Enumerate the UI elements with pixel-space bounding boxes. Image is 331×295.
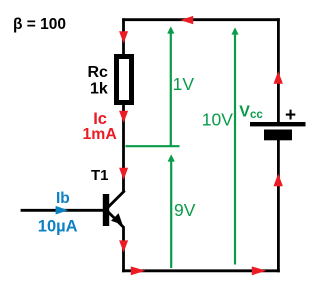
wire collector vertical (resistor to transistor)	[122, 104, 125, 192]
transistor emitter lead	[108, 212, 124, 228]
svg-text:1k: 1k	[90, 80, 108, 97]
voltage arrow 1V head	[167, 26, 174, 33]
svg-text:T1: T1	[91, 167, 109, 184]
current arrow bottom right (right-pointing)	[252, 266, 267, 275]
battery Vcc short plate	[264, 130, 292, 141]
svg-text:10µA: 10µA	[38, 217, 78, 235]
wire bottom horizontal	[122, 269, 280, 272]
wire top horizontal	[122, 18, 280, 21]
svg-text:1mA: 1mA	[83, 126, 117, 143]
wire base horizontal	[21, 209, 103, 212]
node tick collector voltage (green)	[126, 145, 180, 147]
voltage arrow 1V line	[170, 32, 172, 146]
current arrow bottom left (right-pointing)	[131, 266, 146, 275]
transistor collector lead	[108, 191, 125, 208]
wire emitter vertical	[122, 227, 125, 273]
battery Vcc long plate	[250, 122, 306, 126]
current arrow top wire (left-pointing)	[180, 16, 193, 24]
svg-text:Rc: Rc	[88, 64, 109, 81]
transistor emitter arrowhead	[111, 213, 123, 225]
voltage arrow 9V line	[170, 160, 172, 268]
svg-text:1V: 1V	[173, 74, 195, 94]
svg-text:Ib: Ib	[56, 190, 70, 207]
transistor Q1 base bar	[103, 194, 109, 226]
svg-text:β = 100: β = 100	[13, 16, 66, 33]
voltage arrow 10V head	[231, 27, 238, 34]
wire left vertical (top corner to resistor)	[122, 18, 125, 55]
svg-text:10V: 10V	[202, 109, 233, 129]
voltage arrow 10V line	[234, 33, 236, 265]
voltage arrow 9V head	[168, 154, 175, 161]
resistor Rc	[117, 57, 132, 103]
wire right vertical lower (battery to bottom corner)	[277, 140, 280, 272]
svg-text:9V: 9V	[174, 200, 196, 220]
current arrow above transistor	[119, 168, 128, 180]
svg-text:+: +	[285, 105, 296, 126]
current arrow emitter down	[119, 240, 128, 252]
wire right vertical upper (top corner to battery)	[277, 18, 280, 122]
current arrow Ic below resistor	[119, 111, 128, 123]
current arrow into Rc	[119, 31, 128, 43]
current arrow right upper (up)	[274, 71, 283, 84]
current arrow right lower (up)	[274, 174, 283, 187]
base current arrow Ib (blue)	[56, 206, 69, 215]
